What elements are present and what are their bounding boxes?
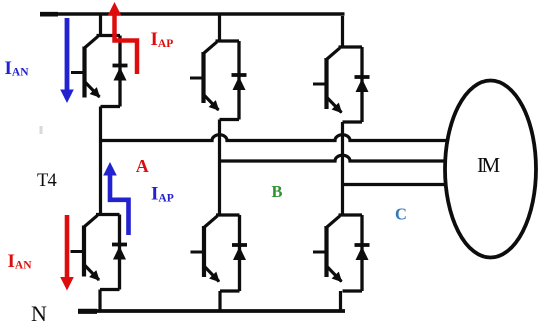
svg-text:A: A <box>136 156 149 176</box>
svg-text:N: N <box>31 301 47 325</box>
svg-text:IM: IM <box>477 153 500 177</box>
svg-text:B: B <box>272 182 283 201</box>
svg-text:C: C <box>395 205 407 224</box>
svg-text:T4: T4 <box>37 171 57 191</box>
